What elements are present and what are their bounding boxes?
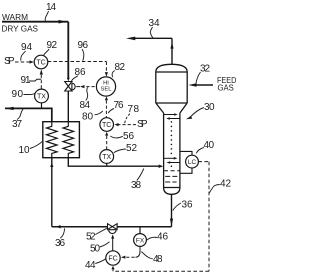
svg-text:52: 52 xyxy=(126,143,137,154)
svg-text:80: 80 xyxy=(82,112,93,123)
svg-text:76: 76 xyxy=(114,100,124,111)
svg-text:48: 48 xyxy=(153,254,163,265)
svg-text:44: 44 xyxy=(85,260,96,271)
svg-text:36: 36 xyxy=(55,238,65,249)
svg-text:37: 37 xyxy=(12,119,22,130)
svg-text:94: 94 xyxy=(21,42,32,53)
svg-text:86: 86 xyxy=(75,67,86,78)
svg-text:SEL: SEL xyxy=(101,87,113,93)
svg-text:34: 34 xyxy=(149,18,160,29)
svg-text:SP: SP xyxy=(137,119,148,130)
svg-text:40: 40 xyxy=(204,140,215,151)
svg-text:42: 42 xyxy=(220,179,231,190)
svg-text:91: 91 xyxy=(21,75,31,86)
svg-text:DRY GAS: DRY GAS xyxy=(2,24,39,34)
svg-text:14: 14 xyxy=(46,2,56,13)
svg-text:LC: LC xyxy=(188,159,197,166)
svg-text:46: 46 xyxy=(157,232,168,243)
svg-text:TX: TX xyxy=(37,94,46,101)
svg-text:78: 78 xyxy=(128,104,140,115)
svg-text:FX: FX xyxy=(136,237,145,244)
svg-text:30: 30 xyxy=(204,102,215,113)
svg-text:TX: TX xyxy=(102,154,111,161)
svg-text:FC: FC xyxy=(108,256,117,263)
svg-text:50: 50 xyxy=(90,244,100,255)
svg-text:TC: TC xyxy=(36,60,45,67)
svg-text:HI: HI xyxy=(103,80,109,86)
svg-text:52: 52 xyxy=(86,232,96,243)
svg-text:38: 38 xyxy=(131,180,141,191)
svg-text:TC: TC xyxy=(102,122,111,129)
svg-text:56: 56 xyxy=(123,131,134,142)
svg-text:90: 90 xyxy=(12,89,24,100)
svg-text:82: 82 xyxy=(115,62,126,73)
svg-text:92: 92 xyxy=(47,40,58,51)
svg-text:32: 32 xyxy=(200,64,210,75)
svg-text:96: 96 xyxy=(78,40,89,51)
svg-text:GAS: GAS xyxy=(218,84,234,93)
svg-text:WARM: WARM xyxy=(2,12,28,22)
svg-text:SP: SP xyxy=(4,56,15,67)
svg-text:10: 10 xyxy=(19,145,30,156)
svg-text:36: 36 xyxy=(182,200,193,211)
svg-text:84: 84 xyxy=(80,100,91,111)
